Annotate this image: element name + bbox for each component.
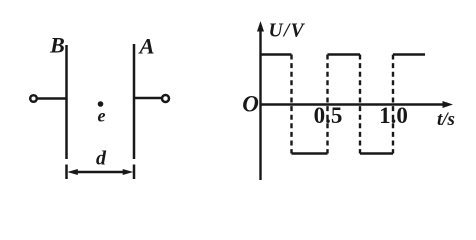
svg-text:B: B bbox=[49, 33, 65, 58]
svg-text:0.5: 0.5 bbox=[314, 103, 343, 128]
svg-text:U/V: U/V bbox=[269, 21, 306, 42]
svg-text:A: A bbox=[137, 33, 154, 58]
svg-text:O: O bbox=[242, 92, 259, 117]
svg-text:e: e bbox=[98, 106, 106, 126]
svg-text:t/s: t/s bbox=[437, 109, 455, 130]
svg-text:d: d bbox=[96, 148, 107, 170]
svg-text:1.0: 1.0 bbox=[379, 103, 408, 128]
